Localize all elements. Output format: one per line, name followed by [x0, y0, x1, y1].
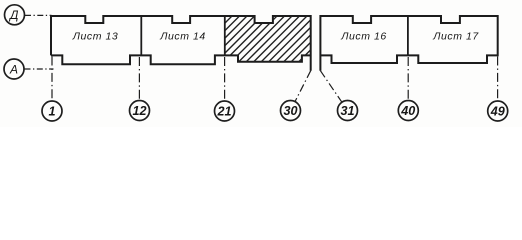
- sheet divider 13|14: [140, 16, 142, 56]
- svg-text:А: А: [9, 62, 18, 76]
- svg-text:40: 40: [400, 104, 415, 118]
- svg-text:31: 31: [340, 104, 354, 118]
- svg-text:49: 49: [490, 105, 505, 119]
- leader axis 40: [407, 57, 409, 100]
- svg-text:Лист 13: Лист 13: [72, 31, 118, 43]
- axis circle 21: [215, 101, 235, 121]
- svg-text:1: 1: [48, 105, 55, 119]
- axis circle 49: [488, 101, 508, 121]
- axis circle 1: [42, 101, 62, 121]
- axis circle 12: [130, 101, 150, 121]
- axis line Д: [25, 14, 52, 16]
- leader axis 1: [51, 57, 53, 102]
- sheet divider 16|17: [407, 16, 409, 56]
- svg-text:Лист 17: Лист 17: [432, 31, 479, 43]
- axis circle А: [4, 59, 24, 79]
- axis line А: [25, 68, 54, 70]
- svg-text:30: 30: [283, 104, 297, 118]
- sheet divider 14|15: [224, 16, 226, 56]
- leader axis 30 (slanted): [295, 71, 311, 102]
- axis circle 30: [281, 101, 301, 121]
- building block group 2 outline (sheets 16,17): [320, 16, 497, 71]
- leader axis 49: [497, 57, 499, 101]
- leader axis 31 (slanted): [320, 71, 342, 103]
- leader axis 21: [224, 57, 226, 101]
- leader axis 12: [138, 57, 140, 100]
- svg-text:12: 12: [132, 104, 146, 118]
- axis circle 40: [398, 101, 418, 121]
- svg-text:21: 21: [216, 105, 231, 119]
- building block group 1 outline (sheets 13,14,15): [51, 16, 311, 71]
- svg-text:Лист 16: Лист 16: [340, 31, 386, 43]
- svg-text:Д: Д: [8, 8, 19, 22]
- axis circle 31: [338, 101, 358, 121]
- svg-text:Лист 14: Лист 14: [159, 31, 205, 43]
- hatching of sheet 15 block: [173, 8, 376, 68]
- axis circle Д: [5, 5, 25, 25]
